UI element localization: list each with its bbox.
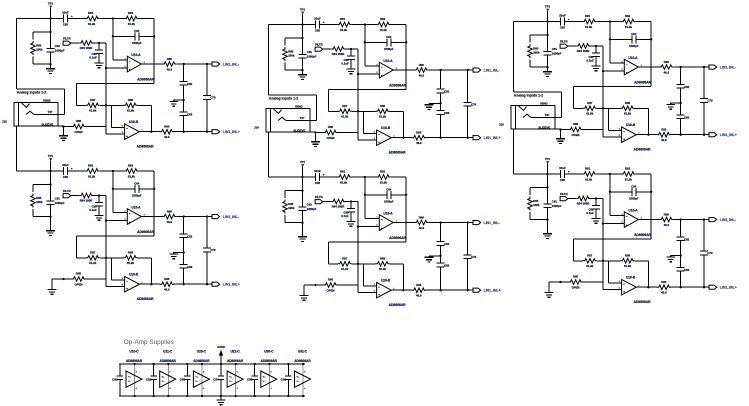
svg-text:U10-C: U10-C xyxy=(129,349,139,353)
svg-text:V−: V− xyxy=(263,381,266,383)
svg-text:U20-C: U20-C xyxy=(197,349,207,353)
svg-text:C81: C81 xyxy=(112,377,118,381)
svg-text:4: 4 xyxy=(136,387,138,390)
svg-text:C82: C82 xyxy=(146,377,152,381)
svg-text:V−: V− xyxy=(297,381,300,383)
svg-text:8: 8 xyxy=(169,372,171,374)
svg-text:8: 8 xyxy=(136,372,138,374)
svg-text:AVDD: AVDD xyxy=(217,345,225,349)
svg-text:V+: V+ xyxy=(297,376,300,378)
svg-text:AD8606AR: AD8606AR xyxy=(227,359,244,363)
svg-text:U11-C: U11-C xyxy=(163,349,173,353)
svg-text:V−: V− xyxy=(162,381,165,383)
svg-text:V+: V+ xyxy=(263,376,266,378)
svg-text:V+: V+ xyxy=(229,376,232,378)
svg-text:4: 4 xyxy=(203,387,205,390)
svg-text:V−: V− xyxy=(128,381,131,383)
svg-text:V+: V+ xyxy=(195,376,198,378)
svg-text:V−: V− xyxy=(195,381,198,383)
svg-text:4: 4 xyxy=(304,387,306,390)
svg-text:4: 4 xyxy=(169,387,171,390)
svg-text:Op-Amp Supplies: Op-Amp Supplies xyxy=(124,339,174,346)
svg-text:C85: C85 xyxy=(247,377,253,381)
svg-text:AD8606AR: AD8606AR xyxy=(261,359,278,363)
svg-text:V+: V+ xyxy=(128,376,131,378)
svg-text:U31-C: U31-C xyxy=(298,349,308,353)
svg-text:C83: C83 xyxy=(180,377,186,381)
svg-text:4: 4 xyxy=(237,387,239,390)
svg-text:AD8606AR: AD8606AR xyxy=(294,359,311,363)
svg-text:AD8606AR: AD8606AR xyxy=(160,359,177,363)
svg-text:AD8606AR: AD8606AR xyxy=(193,359,210,363)
svg-text:8: 8 xyxy=(203,372,205,374)
svg-text:C86: C86 xyxy=(281,377,287,381)
svg-text:AD8606AR: AD8606AR xyxy=(126,359,143,363)
svg-text:U30-C: U30-C xyxy=(264,349,274,353)
svg-text:8: 8 xyxy=(304,372,306,374)
svg-text:V+: V+ xyxy=(162,376,165,378)
svg-text:8: 8 xyxy=(237,372,239,374)
svg-text:8: 8 xyxy=(270,372,272,374)
svg-text:4: 4 xyxy=(270,387,272,390)
svg-text:C84: C84 xyxy=(213,377,219,381)
svg-text:U21-C: U21-C xyxy=(230,349,240,353)
svg-text:V−: V− xyxy=(229,381,232,383)
